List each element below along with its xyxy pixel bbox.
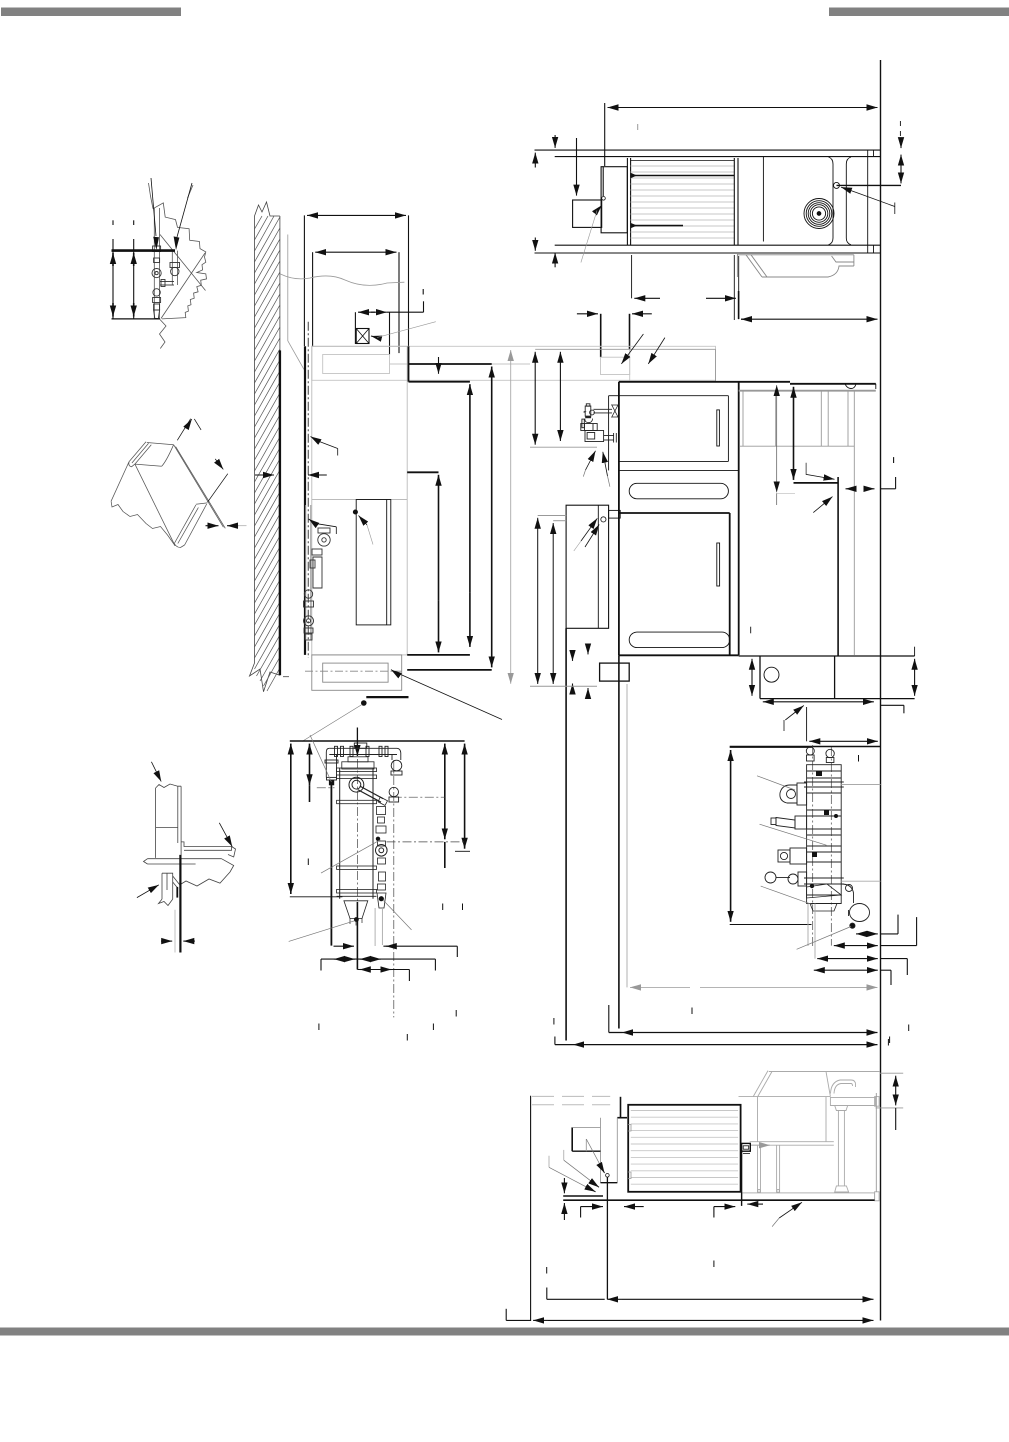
thickness dim arrows at bottom [206,525,219,527]
leader from motor mount [841,187,856,192]
diagonal dim arrow middle (SE) [215,459,223,470]
wall pipe/valve assembly [304,505,331,640]
row2 [834,945,843,947]
small connection box [571,1127,573,1151]
diagonal dim arrow top (NE) [177,419,190,441]
top face fold curve [162,445,174,467]
motor housing inner edge [602,167,604,196]
dim x=438.5 [438,475,440,500]
left pipe drop thick [330,783,332,946]
dim line 3 (damper box) [358,311,375,313]
right-side dimension set of side view [407,346,492,670]
pump blob [850,904,870,922]
leader arrows to ref line [806,463,824,478]
upper cabinet right edge [738,382,740,656]
leader arrow to curb liner [391,670,396,673]
airflow leader arrow 1 [621,334,643,364]
unit left edge (against wall) thick [304,346,306,655]
bottom dim row 1 [546,1288,548,1300]
corner notch [196,503,207,504]
top cap [342,762,374,769]
thick top reference line [112,249,176,252]
light plan rectangle of unit (overhead) [312,346,716,380]
short ledge line [283,676,289,678]
door handle dot [353,510,357,514]
lower cabinet inner top [619,512,730,514]
wall hatching [255,216,280,691]
dim x=469.9 [469,384,471,420]
duct top line [790,383,876,385]
thick anchor line [179,855,181,953]
left elbow down [326,748,329,777]
small dim near page line [846,488,855,490]
bottom gap dim [161,940,172,942]
drop from circle [606,1177,608,1299]
dim x=491.7 [491,367,493,396]
pump dim left [751,659,753,672]
flue box left [566,505,609,628]
leader arrow upper left pipe [309,519,315,523]
gas piping valve train at cabinet left [581,404,619,443]
bottom dim row 2 [505,1309,507,1321]
elbow to second pipe [160,281,174,283]
right duct edge double line [174,445,224,528]
motor housing box [601,167,627,233]
leader arrow at dashdot line lower [311,437,319,442]
valve circle 1 [152,269,161,278]
base extension columns [565,628,567,1040]
coil width dimension line [634,297,660,299]
upper jag [149,183,154,209]
left dim x=309.5 [309,744,311,762]
X diagonal 1 [160,235,206,291]
cabinet joint line [619,469,739,471]
row3 [817,958,826,960]
leader arrows [151,762,161,782]
right fitting column [377,807,386,815]
page boundary vertical line [880,60,882,1321]
upper cabinet top [619,381,790,383]
motor mount circle [834,182,840,188]
unit outer bottom panel line [535,252,881,254]
thick corner vertical [408,346,410,381]
coil right double edge [733,158,735,245]
fan housing interior [757,1097,759,1142]
unit outer top panel line [535,149,881,151]
wall right edge thick lower [279,350,281,675]
side view unit body [312,346,407,655]
left dim x=290.8 [290,744,292,768]
left broken edge [111,462,129,501]
wall left edge [254,216,256,663]
light parallel line [174,910,176,953]
leader arrow down onto pipe 2 [177,183,192,237]
leader dot below curb [361,701,366,706]
bottom band [742,1193,875,1200]
footer bar [0,1328,1009,1336]
left vertical bracket [530,1096,532,1321]
leader lines w/ arrows [548,1156,550,1168]
coil box [628,1105,740,1192]
ref line D [407,654,470,656]
left dim drops [530,516,597,687]
wavy break bottom [111,501,175,546]
small dim pair under left boxes [577,313,598,315]
short thick dash [176,887,178,898]
row2 [321,958,435,960]
ref line E [407,669,492,671]
top ridge edge [147,443,174,445]
panel edge arrow top down [554,135,556,148]
light top line [535,348,715,350]
small dim pair b [713,1207,715,1218]
left dashed lines [532,1096,610,1104]
motor arrow light [750,1144,770,1146]
top overall dimension line [608,107,661,109]
right bracket [881,704,904,706]
extension line left / unit rear edge [303,215,305,346]
door slot lower [717,543,720,586]
center leader arrow down [356,728,358,757]
dim on duct x=793.5 [793,387,795,412]
header bar right [829,8,1009,17]
cabinet bottom [619,654,739,656]
ref line at 746.5 [730,746,881,748]
second pipe valve [171,267,179,275]
fittings upper [153,246,161,252]
return duct stub [620,1097,622,1118]
wall bottom break [250,663,280,692]
union circle [153,289,160,296]
vertical duct/panel [156,786,182,858]
unit bottom lines [563,1195,603,1197]
right dim x=464.6 [464,744,466,768]
flue leader arrows [581,518,597,541]
left protrusion: relief valve horn [780,785,797,803]
bottom reference line [112,318,161,320]
right small dim [876,1107,904,1109]
terminal box dark [742,1143,751,1151]
line through motor mount to dim [837,184,902,186]
manifold centerlines [813,745,832,946]
angle flashing [181,842,231,850]
bottom cone and trap [807,884,842,898]
leader arrow down onto pipe 1 [151,178,156,236]
fan deck band [830,1098,875,1106]
left small dim pair [534,352,536,370]
door slot upper [717,410,720,446]
tank/header outline [807,765,842,904]
extension from ref line down to pump area [837,477,839,656]
small arrows at bottom left [563,1178,565,1193]
roof hood light outline [739,1071,880,1201]
light row F [627,684,878,987]
gooseneck hook [831,1080,856,1094]
lifting circle [349,777,364,792]
pipe column verticals [153,208,155,319]
panel edge arrow bottom up [554,253,556,268]
mid panel vertical [762,157,764,242]
lower fittings [153,298,161,303]
flange bar bottom-right [174,505,196,544]
light long dim at x=510.7 [510,350,512,684]
extension line right [408,215,410,346]
upper cabinet left edge [618,382,620,656]
leader to dim [785,706,804,721]
wall right edge thin upper [279,216,281,350]
dash-dot centerlines [317,759,465,1017]
smoke detector box with X [356,329,369,344]
lower cabinet vent slot [629,483,728,499]
row H [554,1037,556,1045]
pipe centerline dash-dot [307,322,309,658]
light lines from manifold to page line [808,785,881,959]
leader arrow under unit right [779,1202,802,1218]
gauge [765,872,776,883]
row G [608,1005,610,1033]
leader arrow onto damper box [576,138,578,196]
arrow onto plan rect [438,357,440,374]
thick dim ref line A [409,363,492,365]
bottom dimension rows of manifold [814,915,917,985]
thick dim ref line B [409,381,470,383]
top dim [809,740,830,742]
pump section box [730,627,915,747]
filter box left [600,1118,602,1183]
right small dim: dash + down arrow + dim line [899,121,901,126]
panel edge arrow top-left up [534,153,536,168]
flexible conduit wavy line [280,274,404,285]
X diagonal 2 [161,253,205,319]
dim extension line left [604,103,606,166]
discharge duct right side [739,391,876,655]
row1 [856,933,864,935]
wall arrow pointing right at wall face [255,474,274,476]
left protrusion: funnel spout [776,818,795,829]
diagonal arm [360,786,383,799]
thick line below curb [366,696,408,698]
thin dim x=776.7 [776,385,795,505]
dim line 1 [112,239,114,319]
unit inner bottom panel line [555,244,881,246]
top dimension ref line [290,740,465,742]
row1 [334,945,355,947]
black square valve handle [329,780,334,785]
unit right end panel [867,150,869,253]
electrical box on base [600,663,630,681]
thick ref line under duct [794,482,839,484]
row3 [357,969,409,971]
unit inner top panel line [555,156,881,158]
flange bands [337,768,377,772]
coil top edge [631,160,735,162]
left flange strip [129,442,146,462]
panel edge arrow bottom down [534,238,536,251]
dim under pump [763,701,790,703]
posts [757,1145,759,1193]
unit right edge [875,1093,877,1192]
access door [356,500,391,625]
conduit drop line on wall [288,235,304,370]
coil edge nubs [628,1125,631,1132]
burner vent slot [629,632,730,648]
break tail below [160,320,167,349]
manifold body [765,747,870,928]
tank body [337,757,388,926]
callout leader lines (no text) [757,776,851,950]
coil stripes bottom unit [631,1111,738,1185]
fan scroll circles [804,182,840,228]
tank bottom dim rows [321,946,457,981]
main crease line [135,464,175,546]
dim line 1 (outer width) [307,214,330,216]
conduit drop from connection box [741,1151,743,1206]
sill band [148,859,222,864]
jagged break outline [153,203,207,319]
right dim x=444.8 [444,744,446,768]
right elbow down [397,748,401,760]
unit bottom dimension line [741,318,746,320]
small dims left of elec box [572,652,574,661]
dim line 2 [133,239,135,319]
left protrusion: valve w/ actuator [778,850,790,862]
center column drop [356,902,358,970]
header bar left [1,8,181,17]
coil tube line lower with tick arrow [631,225,683,227]
inner panel lines [608,396,610,471]
small dim pair a [580,1207,582,1218]
airflow leader arrow 2 [648,338,665,364]
light drops [374,908,376,946]
dim line 2 (inner width) [315,251,335,253]
bottom cone [344,901,368,919]
flue outlet small box [609,510,621,518]
anchor bolt [162,873,173,899]
dim tick stubs above [112,220,114,225]
coil tube line upper with tick arrow [631,175,735,177]
fan bulkhead [832,164,834,238]
pedestal [835,1106,848,1111]
pump dim right [914,659,916,672]
big left dim bracket [730,746,812,748]
row4 [814,969,822,971]
ref line C [407,471,438,473]
roof curb under side view [305,655,402,690]
damper motor box [573,200,602,227]
leader dash from damper motor box going down [602,197,606,201]
light ref line left [530,446,597,448]
coil fin lines [631,166,735,238]
coil left double edge [626,158,628,245]
leader lines [289,735,412,941]
wall top break [255,202,280,216]
center tee [354,743,367,748]
manifold piping on top [325,743,402,802]
small dim arrow at top of unit [308,474,327,476]
